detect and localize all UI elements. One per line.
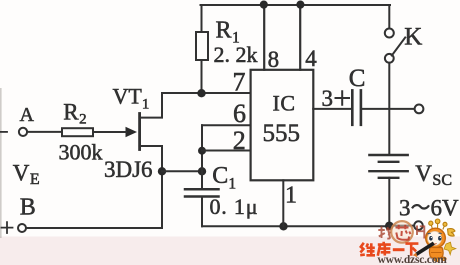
svg-text:2. 2k: 2. 2k: [214, 42, 258, 67]
wire pin 3: [313, 108, 351, 110]
svg-text:IC: IC: [273, 91, 296, 116]
svg-text:300k: 300k: [59, 140, 103, 165]
wire pins 6-2 down to C1: [201, 125, 203, 189]
plus sign at B: [2, 222, 13, 233]
terminal output lower: [414, 221, 423, 230]
wire C to output: [362, 108, 415, 110]
switch K: [385, 29, 405, 63]
battery VSC: [369, 155, 407, 226]
transistor VT1: [140, 93, 162, 171]
terminal output upper: [415, 105, 424, 114]
terminal A: [19, 128, 27, 136]
wire pin 2: [202, 150, 251, 152]
node C1 top junction: [198, 167, 206, 175]
svg-text:0. 1μ: 0. 1μ: [210, 194, 259, 219]
svg-text:www.dzsc.com: www.dzsc.com: [378, 254, 448, 265]
wire B run: [26, 227, 162, 229]
node pin 8 rail junction: [260, 1, 268, 9]
svg-text:7: 7: [233, 68, 246, 97]
node pin 1 rail junction: [279, 222, 287, 230]
svg-text:K: K: [404, 23, 422, 50]
svg-text:3: 3: [322, 86, 334, 111]
capacitor C: [352, 90, 361, 124]
wire source node to C1 node: [162, 170, 202, 172]
wire pin 1: [282, 180, 284, 226]
wire pin 8: [263, 5, 265, 70]
svg-text:C: C: [349, 65, 366, 92]
svg-text:1: 1: [285, 183, 297, 209]
wire A to R2: [27, 131, 62, 133]
plus polarity at C: [336, 91, 350, 104]
wire top supply rail: [201, 4, 391, 6]
minus lead at A: [1, 131, 8, 133]
wire ground rail: [202, 225, 389, 227]
svg-text:8: 8: [268, 47, 280, 72]
resistor R2: [62, 128, 93, 136]
watermark text wei ku yi xia: [360, 242, 418, 256]
wire source node to B rail: [161, 171, 163, 228]
capacitor C1: [185, 189, 219, 226]
resistor R1: [196, 5, 208, 93]
left page edge shading: [0, 88, 2, 238]
svg-text:3: 3: [399, 195, 411, 220]
svg-text:2: 2: [233, 126, 246, 155]
watermark mascot: [413, 219, 456, 261]
wire drain node to pin 7: [162, 92, 251, 94]
node source junction: [158, 167, 166, 175]
svg-text:6: 6: [233, 99, 246, 128]
wire rail corner to switch: [388, 5, 390, 29]
wire rail to output terminal: [389, 225, 414, 227]
IC U1 555 box: [251, 70, 314, 181]
wire R2 to gate: [93, 131, 126, 133]
svg-text:4: 4: [305, 46, 317, 71]
node pin 2 junction: [198, 147, 206, 155]
watermark pink band: [0, 237, 460, 265]
wire pin 4: [299, 5, 301, 70]
mascot pen: [416, 243, 434, 254]
svg-text:6V: 6V: [431, 195, 460, 220]
svg-text:B: B: [20, 195, 36, 221]
mascot head: [426, 228, 446, 248]
node pin 4 rail junction: [296, 1, 304, 9]
wire gate with arrowhead: [93, 127, 137, 137]
watermark stamp zhao xin pian: [378, 221, 424, 243]
node battery rail junction: [385, 222, 394, 231]
terminal B: [18, 224, 26, 232]
node R1 drain junction: [197, 89, 205, 97]
svg-text:3DJ6: 3DJ6: [104, 157, 153, 182]
svg-text:A: A: [20, 104, 35, 126]
wire switch to battery: [388, 63, 390, 155]
wire pin 6: [202, 124, 251, 126]
svg-text:555: 555: [263, 120, 301, 147]
mascot body: [429, 248, 443, 259]
